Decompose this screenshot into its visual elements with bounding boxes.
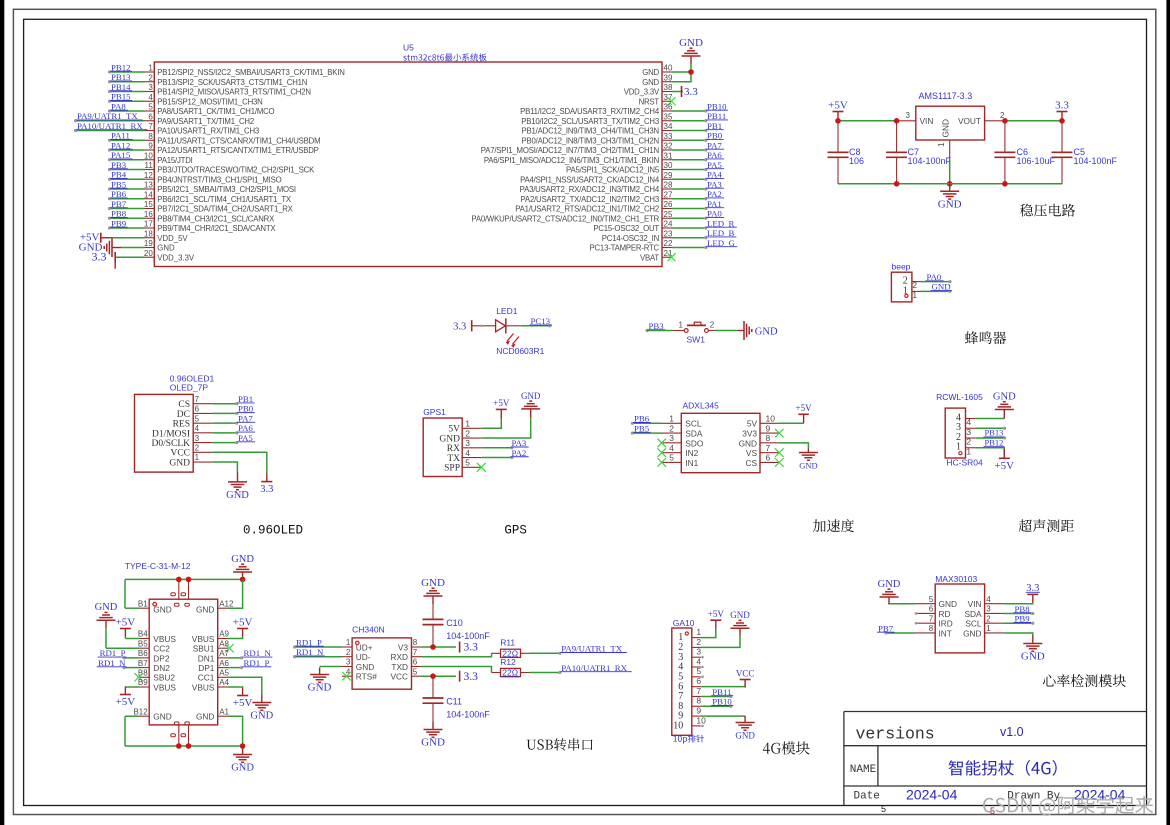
svg-text:GND: GND bbox=[153, 604, 171, 614]
RCWL pin 3 bbox=[956, 422, 1006, 437]
ADXL345 pin 6 CS bbox=[745, 453, 783, 468]
svg-text:+5V: +5V bbox=[828, 99, 848, 111]
caption buzzer CJK bbox=[965, 331, 1006, 344]
svg-text:VIN: VIN bbox=[968, 599, 982, 609]
OLED pin 5 RES wire to net PA7 bbox=[173, 413, 256, 429]
svg-text:36: 36 bbox=[664, 103, 673, 112]
svg-text:MAX30103: MAX30103 bbox=[935, 574, 977, 584]
U5 pin 11 PB3 wire and net label bbox=[108, 160, 315, 175]
svg-text:5: 5 bbox=[195, 414, 200, 423]
svg-text:IRD: IRD bbox=[939, 619, 953, 629]
OLED pin 7 CS wire to net PB1 bbox=[178, 394, 254, 410]
svg-text:14: 14 bbox=[144, 190, 153, 199]
svg-text:26: 26 bbox=[664, 200, 673, 209]
GPS1 pin 5 SPP bbox=[444, 458, 486, 474]
svg-text:2: 2 bbox=[465, 428, 470, 438]
net label PB13 bbox=[984, 428, 1005, 438]
svg-text:GND: GND bbox=[735, 731, 755, 741]
svg-text:PA3/USART2_RX/ADC12_IN3/TIM2_C: PA3/USART2_RX/ADC12_IN3/TIM2_CH4 bbox=[520, 185, 660, 194]
svg-text:VS: VS bbox=[746, 448, 758, 458]
capacitor C5 104-100nF bbox=[1052, 121, 1118, 184]
svg-text:VDD_3.3V: VDD_3.3V bbox=[624, 88, 660, 97]
U5 pin 5 PA8 wire and net label bbox=[108, 101, 275, 116]
svg-text:RCWL-1605: RCWL-1605 bbox=[936, 392, 983, 402]
svg-text:SBU1: SBU1 bbox=[193, 644, 215, 654]
svg-text:8: 8 bbox=[929, 624, 934, 633]
caption accelerometer CJK bbox=[813, 519, 854, 532]
U5 pin 23 PC14-OSC32_IN bbox=[602, 228, 737, 243]
title block NAME row with project title CJK bbox=[850, 760, 1057, 776]
svg-text:3.3: 3.3 bbox=[684, 86, 698, 98]
svg-text:PA0/WKUP/USART2_CTS/ADC12_IN0/: PA0/WKUP/USART2_CTS/ADC12_IN0/TIM2_CH1_E… bbox=[471, 214, 659, 223]
U5 part name stm32c8t6 CJK bbox=[403, 53, 486, 61]
LED1 cathode wire to net PC13 bbox=[506, 316, 552, 327]
svg-text:3.3: 3.3 bbox=[464, 671, 479, 683]
svg-text:11: 11 bbox=[144, 161, 153, 170]
U5 pin 26 PA1 bbox=[515, 199, 724, 214]
svg-text:GPS: GPS bbox=[504, 524, 527, 538]
svg-text:4: 4 bbox=[148, 93, 153, 102]
svg-text:PC13-TAMPER-RTC: PC13-TAMPER-RTC bbox=[590, 244, 660, 253]
svg-text:19: 19 bbox=[144, 239, 153, 248]
ground flag below ADXL345 pin8 bbox=[799, 449, 818, 471]
TYPE-C pin A6 DP1 bbox=[198, 658, 271, 673]
svg-text:B4: B4 bbox=[138, 630, 148, 639]
wire +5V to VIN rail with junctions bbox=[835, 111, 916, 123]
RCWL pin 2 bbox=[956, 432, 1006, 447]
ground flag below TYPE-C right bbox=[231, 747, 254, 774]
svg-text:13: 13 bbox=[144, 181, 153, 190]
U5 pin 38 VDD_3.3V bbox=[624, 83, 699, 98]
svg-text:5: 5 bbox=[929, 595, 934, 604]
svg-text:AMS1117-3.3: AMS1117-3.3 bbox=[919, 91, 973, 101]
svg-text:2: 2 bbox=[148, 73, 153, 82]
svg-text:32: 32 bbox=[664, 142, 673, 151]
svg-text:3: 3 bbox=[696, 647, 701, 657]
svg-text:PC15-OSC32_OUT: PC15-OSC32_OUT bbox=[593, 224, 659, 233]
caption 0.96OLED bbox=[243, 524, 303, 538]
svg-text:GND: GND bbox=[730, 610, 750, 620]
svg-text:22: 22 bbox=[664, 239, 673, 248]
MAX30103 pin 5 GND bbox=[889, 595, 957, 609]
screenshot right black bar bbox=[1166, 0, 1170, 825]
RCWL pin 1 bbox=[956, 442, 1004, 459]
VCC flag above GA10 pin6 bbox=[736, 668, 755, 687]
svg-text:4: 4 bbox=[195, 424, 200, 433]
svg-text:8: 8 bbox=[696, 696, 701, 706]
svg-text:RXD: RXD bbox=[390, 652, 408, 662]
svg-text:PB7/I2C1_SDA/TIM4_CH2/USART1_R: PB7/I2C1_SDA/TIM4_CH2/USART1_RX bbox=[157, 205, 293, 214]
svg-text:18: 18 bbox=[144, 229, 153, 238]
caption ultrasonic ranging CJK bbox=[1019, 519, 1074, 532]
svg-text:PB12: PB12 bbox=[985, 437, 1004, 447]
capacitor C7 104-100nF bbox=[886, 121, 951, 184]
svg-text:A5: A5 bbox=[219, 669, 229, 678]
svg-text:D0/SCLK: D0/SCLK bbox=[151, 439, 190, 449]
svg-text:CS: CS bbox=[178, 400, 190, 410]
USB-serial CH340N body bbox=[352, 624, 411, 689]
svg-text:A4: A4 bbox=[219, 678, 229, 687]
svg-text:R12: R12 bbox=[500, 657, 516, 667]
CH340N pin 6 TXD bbox=[391, 658, 421, 672]
svg-text:5: 5 bbox=[148, 103, 153, 112]
svg-text:GND: GND bbox=[226, 490, 249, 501]
svg-text:+5V: +5V bbox=[708, 609, 725, 619]
U5 pin 25 PA0 bbox=[471, 209, 724, 224]
svg-text:B9: B9 bbox=[138, 678, 148, 687]
svg-text:+5V: +5V bbox=[233, 697, 253, 709]
svg-text:DC: DC bbox=[177, 410, 190, 420]
resistor R12 22ohm bbox=[422, 657, 531, 678]
svg-text:7: 7 bbox=[195, 395, 200, 404]
TYPE-C pin B1 GND wire loop bbox=[125, 579, 172, 614]
+5V flag above GA10 pin1 bbox=[708, 609, 725, 629]
svg-text:3.3: 3.3 bbox=[92, 250, 107, 264]
svg-text:28: 28 bbox=[664, 181, 673, 190]
svg-text:1: 1 bbox=[669, 414, 674, 424]
heart-rate sensor MAX30103 body bbox=[935, 574, 984, 653]
GPS1 pin 2 GND bbox=[439, 418, 530, 444]
svg-text:104-100nF: 104-100nF bbox=[446, 631, 490, 641]
U5 pin 6 PA9/UATR1_TX wire and net label bbox=[74, 111, 254, 126]
TYPE-C pin B5 CC2 bbox=[106, 628, 170, 653]
svg-text:GND: GND bbox=[231, 554, 254, 565]
svg-text:NRST: NRST bbox=[639, 97, 660, 106]
svg-text:1: 1 bbox=[148, 64, 153, 73]
GA10 pin 4 bbox=[678, 656, 704, 672]
svg-text:8: 8 bbox=[148, 132, 153, 141]
TYPE-C top ground rail with shield stubs bbox=[125, 577, 245, 600]
svg-text:GND: GND bbox=[679, 37, 703, 49]
svg-text:106-10uF: 106-10uF bbox=[1017, 156, 1056, 166]
GA10 10p header label CJK bbox=[674, 735, 705, 744]
svg-text:8: 8 bbox=[413, 638, 418, 647]
svg-text:2: 2 bbox=[346, 648, 351, 657]
svg-text:30: 30 bbox=[664, 161, 673, 170]
svg-text:GND: GND bbox=[799, 461, 817, 471]
GA10 pin 10 bbox=[673, 715, 706, 731]
svg-text:7: 7 bbox=[413, 648, 418, 657]
svg-text:3V3: 3V3 bbox=[742, 428, 757, 438]
MAX30103 pin 8 INT bbox=[877, 623, 952, 638]
svg-text:38: 38 bbox=[664, 83, 673, 92]
svg-text:VBUS: VBUS bbox=[192, 682, 215, 692]
ground flag below C11 bbox=[421, 722, 445, 749]
svg-text:3: 3 bbox=[148, 83, 153, 92]
svg-text:34: 34 bbox=[664, 122, 673, 131]
U5 pin 32 PA7 bbox=[481, 140, 724, 155]
caption GPS bbox=[504, 524, 527, 538]
svg-text:25: 25 bbox=[664, 210, 673, 219]
svg-text:B6: B6 bbox=[138, 649, 148, 658]
svg-text:VDD_3.3V: VDD_3.3V bbox=[157, 253, 195, 262]
TYPE-C shield pads top bbox=[171, 593, 190, 607]
svg-text:PB11/I2C2_SDA/USART3_RX/TIM2_C: PB11/I2C2_SDA/USART3_RX/TIM2_CH4 bbox=[520, 107, 660, 116]
R12 wire to net PA10/UATR1_RX bbox=[530, 663, 632, 674]
svg-text:GND: GND bbox=[153, 711, 171, 721]
svg-text:4: 4 bbox=[986, 595, 991, 604]
svg-text:VOUT: VOUT bbox=[958, 116, 981, 126]
svg-text:GND: GND bbox=[521, 391, 541, 401]
caption 4G module CJK bbox=[763, 741, 810, 754]
U5 pin 39 GND bbox=[642, 73, 673, 87]
svg-text:PB4/JNTRST/TIM3_CH1/SPI1_MISO: PB4/JNTRST/TIM3_CH1/SPI1_MISO bbox=[157, 175, 281, 184]
svg-text:2: 2 bbox=[912, 280, 917, 290]
svg-text:PA11/USART1_CTS/CANRX/TIM1_CH4: PA11/USART1_CTS/CANRX/TIM1_CH4/USBDM bbox=[157, 136, 320, 145]
svg-text:5: 5 bbox=[465, 458, 470, 468]
svg-text:PB12/SPI2_NSS/I2C2_SMBAI/USART: PB12/SPI2_NSS/I2C2_SMBAI/USART3_CK/TIM1_… bbox=[157, 68, 344, 77]
svg-text:5: 5 bbox=[413, 667, 418, 676]
U5 pin 18 VDD_5V with +5V flag bbox=[80, 229, 189, 243]
ultrasonic connector RCWL-1605 body bbox=[936, 392, 983, 467]
svg-text:VCC: VCC bbox=[390, 672, 408, 682]
svg-text:v1.0: v1.0 bbox=[1000, 725, 1024, 739]
capacitor C8 106 bbox=[828, 121, 865, 184]
svg-text:CH340N: CH340N bbox=[352, 624, 385, 634]
svg-text:PA5/SPI1_SCK/ADC12_IN5: PA5/SPI1_SCK/ADC12_IN5 bbox=[566, 166, 660, 175]
TYPE-C pin B8 SBU2 bbox=[134, 669, 175, 683]
svg-text:PA6/SPI1_MISO/ADC12_IN6/TIM3_C: PA6/SPI1_MISO/ADC12_IN6/TIM3_CH1/TIM1_BK… bbox=[484, 156, 659, 165]
ground flag below GA10 pin9 bbox=[735, 716, 755, 741]
beep pin 2 wire to net PA0 bbox=[912, 272, 952, 290]
U5 pin 21 VBAT bbox=[640, 249, 676, 263]
ground flag above GPS pin2 bbox=[521, 391, 541, 418]
CH340N pin 1 UD+ bbox=[293, 637, 373, 652]
svg-text:22Ω: 22Ω bbox=[502, 668, 518, 678]
svg-text:5V: 5V bbox=[448, 425, 460, 435]
svg-text:PB5/I2C1_SMBAI/TIM3_CH2/SPI1_M: PB5/I2C1_SMBAI/TIM3_CH2/SPI1_MOSI bbox=[157, 185, 296, 194]
svg-text:17: 17 bbox=[144, 220, 153, 229]
U5 pin 2 PB13 wire and net label bbox=[108, 72, 307, 87]
U5 pin 7 PA10/UATR1_RX wire and net label bbox=[74, 121, 259, 136]
SW1 pin2 wire to ground bbox=[708, 330, 738, 332]
MAX30103 pin 3 SDA bbox=[964, 604, 1034, 619]
svg-text:SDA: SDA bbox=[685, 428, 703, 438]
svg-text:6: 6 bbox=[929, 605, 934, 614]
U5 reference designator bbox=[403, 43, 414, 53]
sheet column number 5 bbox=[881, 804, 886, 814]
svg-text:PA2/USART2_TX/ADC12_IN2/TIM2_C: PA2/USART2_TX/ADC12_IN2/TIM2_CH3 bbox=[521, 195, 659, 204]
ground flag left of TYPE-C B1 (CC2 pulldown) bbox=[95, 602, 118, 628]
4G module header GA10 body bbox=[672, 618, 695, 736]
svg-text:+5V: +5V bbox=[233, 616, 253, 628]
svg-text:GND: GND bbox=[196, 604, 214, 614]
svg-text:GND: GND bbox=[439, 434, 460, 444]
svg-text:GND: GND bbox=[169, 458, 190, 468]
svg-text:PB10/I2C2_SCL/USART3_TX/TIM2_C: PB10/I2C2_SCL/USART3_TX/TIM2_CH3 bbox=[521, 117, 659, 126]
GPS1 pin 3 RX bbox=[447, 438, 529, 454]
TYPE-C pin A1 GND bbox=[196, 707, 243, 746]
svg-text:9: 9 bbox=[696, 705, 701, 715]
svg-text:5: 5 bbox=[696, 666, 701, 676]
svg-text:4: 4 bbox=[669, 443, 674, 453]
R11 wire to net PA9/UATR1_TX bbox=[530, 644, 627, 655]
U5 pins 40/39 GND wires to top ground bbox=[672, 63, 694, 82]
svg-text:GND: GND bbox=[356, 662, 374, 672]
capacitor C10 104-100nF bbox=[423, 602, 491, 647]
svg-text:104-100nF: 104-100nF bbox=[1074, 156, 1118, 166]
svg-text:3: 3 bbox=[346, 658, 351, 667]
svg-text:TX: TX bbox=[447, 454, 460, 464]
svg-text:PB15/SP12_MOSI/TIM1_CH3N: PB15/SP12_MOSI/TIM1_CH3N bbox=[157, 97, 262, 106]
svg-text:VCC: VCC bbox=[170, 449, 190, 459]
svg-text:4: 4 bbox=[465, 448, 470, 458]
svg-text:5V: 5V bbox=[747, 419, 758, 429]
svg-text:1: 1 bbox=[679, 321, 684, 330]
svg-text:104-100nF: 104-100nF bbox=[908, 156, 952, 166]
GA10 pin 7 bbox=[678, 686, 733, 702]
svg-text:DN1: DN1 bbox=[198, 653, 215, 663]
svg-text:SCL: SCL bbox=[685, 419, 702, 429]
net label PB12 bbox=[984, 437, 1005, 447]
ground flag above GA10 pin2 bbox=[730, 610, 750, 635]
svg-text:OLED_7P: OLED_7P bbox=[170, 383, 209, 393]
svg-text:C11: C11 bbox=[446, 696, 462, 706]
svg-text:3: 3 bbox=[669, 433, 674, 443]
svg-text:106: 106 bbox=[849, 156, 864, 166]
svg-text:+5V: +5V bbox=[796, 403, 813, 413]
CH340N pin 3 GND bbox=[308, 658, 375, 694]
svg-text:3.3: 3.3 bbox=[1055, 99, 1069, 111]
CH340N pin 7 RXD bbox=[390, 648, 421, 662]
title block frame bbox=[844, 712, 1147, 806]
svg-text:VBUS: VBUS bbox=[153, 682, 176, 692]
svg-text:SCL: SCL bbox=[965, 619, 982, 629]
net label PB3 wire to SW1 bbox=[645, 321, 684, 332]
+5V flag below RCWL pin1 bbox=[994, 449, 1014, 472]
svg-text:B7: B7 bbox=[138, 659, 148, 668]
svg-text:versions: versions bbox=[856, 725, 935, 744]
buzzer connector beep body bbox=[891, 261, 912, 302]
U5 pin 22 PC13-TAMPER-RTC bbox=[590, 238, 738, 253]
svg-text:35: 35 bbox=[664, 112, 673, 121]
svg-text:3: 3 bbox=[195, 434, 200, 443]
svg-text:GND: GND bbox=[963, 628, 981, 638]
svg-text:PA1/USART2_RTS/ADC12_IN1/TIM2_: PA1/USART2_RTS/ADC12_IN1/TIM2_CH2 bbox=[515, 205, 659, 214]
GA10 pin 5 bbox=[678, 666, 704, 682]
U5 pin 1 PB12 wire and net label bbox=[108, 62, 345, 77]
svg-text:10: 10 bbox=[766, 414, 776, 424]
regulator U AMS1117-3.3 body bbox=[916, 91, 985, 140]
regulator +5V power flag bbox=[828, 99, 848, 121]
svg-text:A12: A12 bbox=[219, 599, 234, 608]
TYPE-C pin B6 DP2 bbox=[98, 648, 170, 663]
USB connector TYPE-C-31-M-12 body bbox=[125, 561, 218, 725]
svg-text:SW1: SW1 bbox=[687, 335, 706, 345]
LED1 anode wire bbox=[472, 325, 496, 328]
svg-text:PA10/USART1_RX/TIM1_CH3: PA10/USART1_RX/TIM1_CH3 bbox=[157, 127, 259, 136]
svg-text:GND: GND bbox=[196, 711, 214, 721]
title block versions row bbox=[856, 725, 1024, 744]
svg-text:B1: B1 bbox=[138, 599, 148, 608]
ADXL345 pin 2 SDA bbox=[631, 423, 703, 438]
svg-text:6: 6 bbox=[696, 676, 701, 686]
svg-text:1: 1 bbox=[956, 442, 961, 453]
svg-text:3: 3 bbox=[986, 605, 991, 614]
svg-text:ADXL345: ADXL345 bbox=[683, 401, 720, 411]
MCU U5 stm32c8t6 minimal system board - body bbox=[154, 62, 662, 267]
svg-text:PB3/JTDO/TRACESWO/TIM2_CH2/SPI: PB3/JTDO/TRACESWO/TIM2_CH2/SPI1_SCK bbox=[157, 166, 315, 175]
U5 pin 37 NRST bbox=[639, 93, 676, 107]
svg-text:NCD0603R1: NCD0603R1 bbox=[496, 346, 544, 356]
svg-text:DP1: DP1 bbox=[198, 663, 215, 673]
svg-text:IN1: IN1 bbox=[685, 458, 698, 468]
svg-text:1: 1 bbox=[346, 638, 351, 647]
svg-text:A1: A1 bbox=[219, 707, 229, 716]
svg-text:DP2: DP2 bbox=[153, 653, 170, 663]
svg-text:CS: CS bbox=[745, 458, 757, 468]
svg-text:GND: GND bbox=[878, 579, 901, 590]
svg-text:+5V: +5V bbox=[116, 616, 136, 628]
ground flag above TYPE-C right bbox=[231, 554, 254, 579]
svg-text:1: 1 bbox=[986, 624, 991, 633]
U5 pin 28 PA3 bbox=[520, 179, 724, 194]
svg-text:GND: GND bbox=[1021, 651, 1045, 663]
svg-text:27: 27 bbox=[664, 190, 673, 199]
MAX30103 pin 2 SCL bbox=[965, 614, 1034, 629]
svg-text:23: 23 bbox=[664, 229, 673, 238]
TYPE-C pin A9 VBUS bbox=[192, 616, 253, 644]
svg-text:PB13: PB13 bbox=[985, 428, 1004, 438]
CH340N VCC wire to 3.3 flag with C11 junction bbox=[422, 671, 479, 683]
U5 pin 36 PB11 bbox=[520, 101, 728, 116]
GA10 pin 9 bbox=[678, 705, 745, 721]
TYPE-C bottom ground rail with shield stubs bbox=[125, 725, 245, 749]
svg-text:VIN: VIN bbox=[920, 116, 934, 126]
U5 pin 31 PA6 bbox=[484, 150, 724, 165]
svg-text:INT: INT bbox=[939, 628, 952, 638]
svg-text:104-100nF: 104-100nF bbox=[446, 709, 490, 719]
U5 pin 10 PA15 wire and net label bbox=[108, 150, 193, 165]
MAX30103 pin 6 RD bbox=[915, 605, 951, 619]
OLED pin 6 DC wire to net PB0 bbox=[177, 404, 255, 420]
ADXL345 pin 8 GND bbox=[739, 433, 809, 448]
svg-text:A9: A9 bbox=[219, 630, 229, 639]
svg-text:GND: GND bbox=[755, 327, 778, 338]
U5 pin 14 PB6 wire and net label bbox=[108, 189, 292, 204]
svg-text:PB13/SPI2_SCK/USART3_CTS/TIM1_: PB13/SPI2_SCK/USART3_CTS/TIM1_CH1N bbox=[157, 78, 307, 87]
svg-text:40: 40 bbox=[664, 64, 673, 73]
TYPE-C pin A8 SBU1 bbox=[193, 639, 234, 653]
svg-text:C10: C10 bbox=[446, 618, 463, 628]
svg-text:GA10: GA10 bbox=[673, 618, 695, 628]
ADXL345 pin 1 SCL bbox=[631, 414, 702, 429]
svg-text:3.3: 3.3 bbox=[464, 642, 479, 654]
OLED display connector OLED_7P body bbox=[135, 374, 215, 472]
svg-text:4: 4 bbox=[696, 656, 701, 666]
svg-text:SBU2: SBU2 bbox=[153, 673, 175, 683]
svg-text:8: 8 bbox=[766, 433, 771, 443]
svg-text:beep: beep bbox=[892, 261, 911, 271]
svg-text:6: 6 bbox=[195, 405, 200, 414]
ADXL345 pin 9 3V3 bbox=[742, 423, 783, 438]
svg-text:7: 7 bbox=[766, 443, 771, 453]
svg-text:24: 24 bbox=[664, 220, 673, 229]
svg-text:D1/MOSI: D1/MOSI bbox=[152, 429, 190, 439]
OLED pin 4 D1/MOSI wire to net PA6 bbox=[152, 423, 255, 439]
U5 pin 15 PB7 wire and net label bbox=[108, 199, 294, 214]
caption regulator circuit CJK bbox=[1020, 204, 1075, 217]
U5 pin 20 VDD_3.3V with 3.3 flag bbox=[92, 249, 195, 269]
svg-text:+5V: +5V bbox=[493, 398, 510, 408]
svg-text:SPP: SPP bbox=[444, 464, 460, 474]
svg-text:10: 10 bbox=[696, 715, 706, 725]
OLED pin 1 GND wire to ground bbox=[169, 453, 249, 501]
svg-text:VBUS: VBUS bbox=[192, 634, 215, 644]
svg-text:UD-: UD- bbox=[356, 652, 371, 662]
resistor R11 22ohm bbox=[422, 638, 531, 659]
svg-text:10: 10 bbox=[144, 151, 153, 160]
